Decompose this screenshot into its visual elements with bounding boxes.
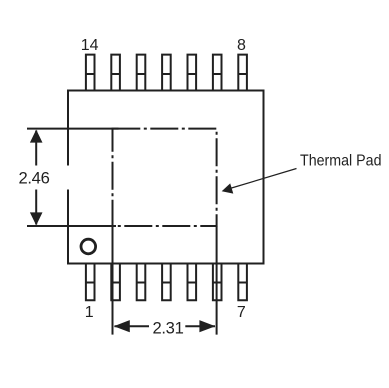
pin 4 (bottom row) <box>162 264 171 301</box>
pin 12 (top row) <box>137 55 146 91</box>
svg-text:Thermal Pad: Thermal Pad <box>300 153 382 170</box>
white mask behind 2.46 label <box>12 166 72 190</box>
pin 3 (bottom row) <box>137 264 146 301</box>
pin 10 (top row) <box>188 55 197 91</box>
pin 13 (top row) <box>111 55 120 91</box>
extension line bottom-left (horizontal) <box>27 225 116 227</box>
pin 11 (top row) <box>162 55 171 91</box>
pin 9 (top row) <box>213 55 222 91</box>
pin 7 (bottom row, rightmost) <box>238 264 247 301</box>
extension line left (vertical, through pin 2) <box>112 227 114 335</box>
dimension line horizontal 2.31 <box>115 325 216 327</box>
package body outline <box>68 91 264 264</box>
pin 5 (bottom row) <box>188 264 197 301</box>
pin 2 (bottom row) <box>111 264 120 301</box>
white mask behind 2.31 label <box>149 316 185 335</box>
pin 1 index circle <box>81 239 96 254</box>
leader line to thermal pad <box>232 169 297 189</box>
svg-text:14: 14 <box>81 37 99 54</box>
extension line right (vertical, through pin 6) <box>216 227 218 335</box>
svg-text:1: 1 <box>85 304 94 321</box>
svg-text:2.46: 2.46 <box>19 168 50 187</box>
arrowhead left (2.31 dimension) <box>114 320 130 332</box>
arrowhead down (2.46 dimension) <box>30 212 43 225</box>
arrowhead of thermal pad leader <box>222 183 234 193</box>
svg-text:7: 7 <box>237 304 246 321</box>
pin 6 (bottom row) <box>213 264 222 301</box>
arrowhead right (2.31 dimension) <box>199 320 215 332</box>
pin 1 (bottom row, leftmost) <box>86 264 95 301</box>
svg-text:2.31: 2.31 <box>153 318 184 337</box>
arrowhead up (2.46 dimension) <box>30 130 43 143</box>
dimension line vertical 2.46 <box>35 131 37 225</box>
extension line top-left (horizontal) <box>27 128 119 130</box>
thermal pad outline (dash-dot) <box>113 129 217 226</box>
svg-text:8: 8 <box>237 37 246 54</box>
pin 14 (top row, leftmost) <box>86 55 95 91</box>
pin 8 (top row, rightmost) <box>238 55 247 91</box>
